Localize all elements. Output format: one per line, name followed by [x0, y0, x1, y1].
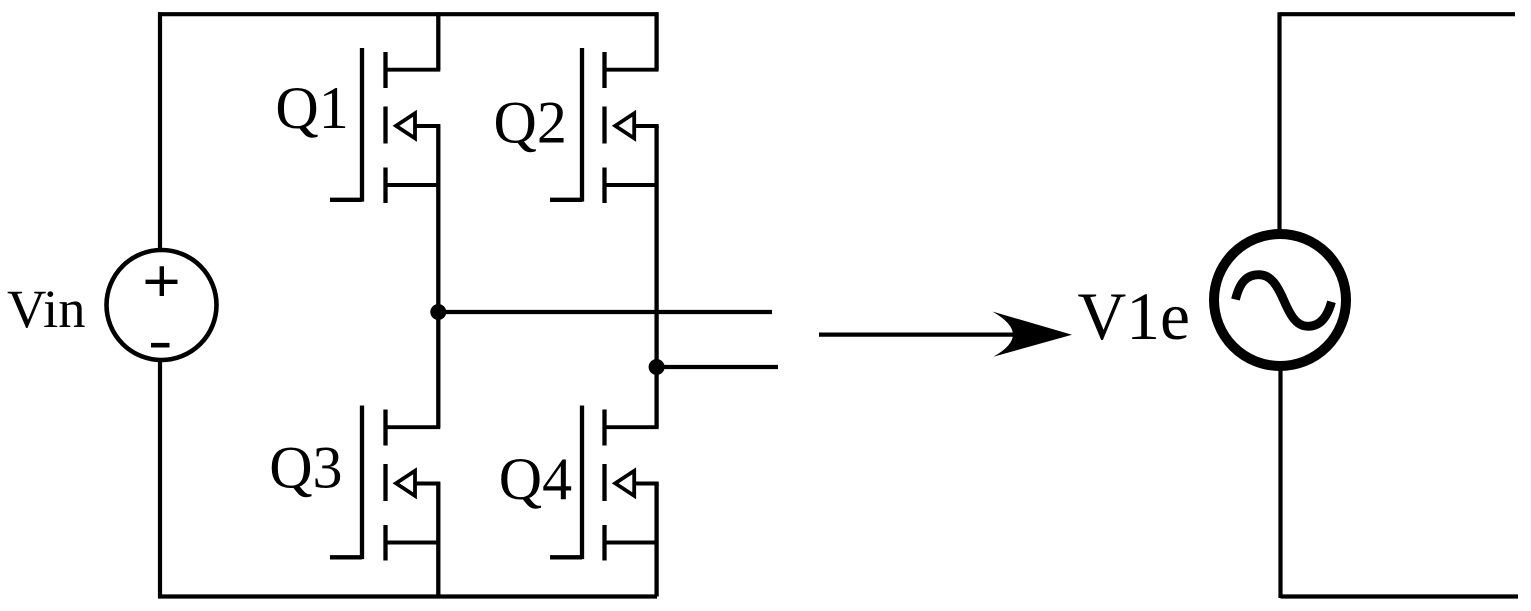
wire AC bottom lead: [1278, 366, 1282, 598]
svg-text:V1e: V1e: [1078, 279, 1190, 354]
wire AC top lead: [1277, 12, 1281, 234]
svg-text:Q2: Q2: [494, 90, 567, 156]
wire top rail left bridge: [158, 12, 658, 16]
svg-text:Q4: Q4: [499, 446, 572, 512]
svg-text:Vin: Vin: [7, 278, 85, 339]
voltage source Vin: [107, 250, 217, 360]
arrow shaft: [819, 333, 1050, 337]
AC sine wave: [1236, 275, 1332, 327]
wire output line 1: [438, 310, 772, 314]
svg-text:Q1: Q1: [275, 75, 348, 141]
node B (bridge midpoint right): [649, 359, 665, 375]
transistor Q2: [550, 12, 659, 427]
transistor Q3: [330, 312, 440, 597]
wire bottom rail: [158, 594, 657, 598]
node A (bridge midpoint left): [430, 304, 446, 320]
arrowhead: [992, 312, 1072, 357]
AC source V1e circle: [1214, 234, 1346, 366]
transistor Q4: [550, 406, 659, 597]
wire left rail lower (Vin bottom to bottom rail): [158, 358, 162, 598]
transistor Q1: [330, 12, 440, 312]
wire output line 2: [657, 365, 778, 369]
wire bottom rail right: [1281, 594, 1519, 598]
wire left rail upper (Vin top to top rail): [158, 12, 162, 252]
svg-text:Q3: Q3: [269, 435, 342, 501]
wire top rail right: [1280, 12, 1516, 16]
